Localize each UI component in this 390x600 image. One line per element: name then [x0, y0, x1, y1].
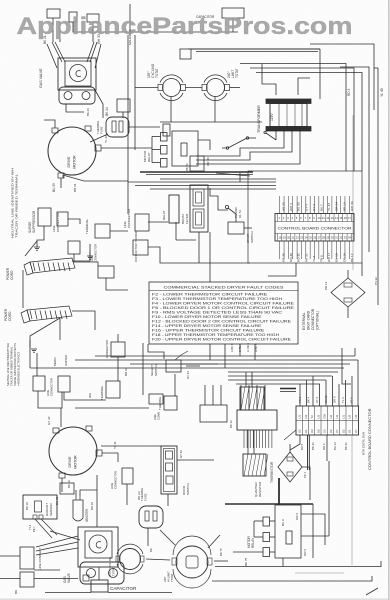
switch blade near transformer — [266, 133, 276, 140]
wire below grid 2 — [290, 435, 300, 450]
wire — [170, 97, 172, 123]
wire — [122, 112, 124, 118]
wire bus lower 2 — [75, 359, 358, 361]
transformer T1 inner lines — [278, 104, 280, 126]
wire — [198, 232, 200, 263]
svg-text:THERMAL: THERMAL — [158, 396, 162, 410]
svg-text:CONTROL BOARD CONNECTOR: CONTROL BOARD CONNECTOR — [367, 408, 372, 470]
svg-text:YL 3: YL 3 — [341, 397, 345, 403]
wire — [186, 365, 200, 367]
wire fan from sensor — [35, 519, 52, 538]
svg-text:RELAY: RELAY — [147, 152, 151, 162]
door switch body — [161, 446, 177, 494]
wire relay to bottom bus — [282, 558, 284, 567]
svg-text:TERMINAL: TERMINAL — [85, 219, 89, 235]
wire — [52, 18, 54, 42]
wire drops below fault box — [209, 344, 211, 360]
svg-text:CAPACITOR: CAPACITOR — [110, 586, 137, 591]
line connector LC2 — [68, 241, 80, 254]
svg-text:TRACER OR RIBBED TERMINAL: TRACER OR RIBBED TERMINAL — [15, 174, 19, 238]
svg-text:BU 9: BU 9 — [281, 519, 285, 526]
wire — [245, 372, 247, 387]
connector box CC1 — [135, 214, 149, 231]
svg-text:OR 36: OR 36 — [206, 157, 210, 166]
connector block — [180, 49, 191, 59]
svg-text:YL 43: YL 43 — [327, 203, 331, 211]
svg-text:OR 6: OR 6 — [303, 549, 307, 556]
svg-text:U2: U2 — [298, 429, 302, 433]
wire top horizontal — [110, 31, 238, 33]
svg-text:BU 33: BU 33 — [297, 202, 301, 211]
svg-text:U3: U3 — [304, 415, 308, 419]
control board connector pin numbers top — [279, 216, 352, 220]
svg-text:DIGIT CARD: DIGIT CARD — [307, 310, 311, 330]
wire drops to relay board — [240, 385, 242, 410]
svg-text:BK 7: BK 7 — [320, 204, 324, 211]
wire bus lower 4 — [30, 367, 344, 369]
svg-text:CONNECTOR: CONNECTOR — [94, 244, 98, 262]
svg-text:BK 7: BK 7 — [32, 526, 36, 532]
svg-text:WH 33: WH 33 — [350, 201, 354, 211]
drive motor M1 terminal top-left — [52, 128, 58, 133]
thermostat TS1 body — [163, 79, 181, 97]
svg-text:BR 19: BR 19 — [342, 202, 346, 211]
capacitor body — [91, 580, 108, 592]
svg-text:SURGE SUPPRESSOR PROTECTS: SURGE SUPPRESSOR PROTECTS — [13, 343, 17, 386]
svg-text:115V: 115V — [270, 113, 274, 121]
wire — [208, 535, 220, 548]
wire bus right outer — [340, 67, 369, 78]
cycling thermostat TS3 body — [120, 549, 141, 570]
svg-text:U3: U3 — [348, 415, 352, 419]
gas valve GV2 bracket — [80, 562, 124, 584]
motor relay upper box — [172, 131, 198, 166]
wire — [127, 35, 129, 214]
wire gray vertical lower — [351, 435, 353, 565]
svg-text:BK 19: BK 19 — [67, 480, 71, 488]
wire — [298, 78, 310, 95]
svg-text:TN 5: TN 5 — [320, 255, 324, 262]
wire U under suppressor — [38, 391, 62, 408]
scan edge streak bottom — [0, 598, 390, 600]
wire — [289, 444, 291, 452]
wire below diamond — [347, 307, 349, 318]
wire — [117, 334, 119, 342]
svg-text:BK: BK — [14, 590, 18, 594]
wire — [253, 521, 255, 537]
drive motor M1 terminal top-right — [85, 126, 91, 131]
relay box RL1 — [169, 195, 179, 223]
thermostat TS2 terminal right — [225, 85, 230, 91]
svg-text:YL 45: YL 45 — [380, 88, 384, 97]
relay upper coil bar — [181, 143, 187, 156]
drive motor M1 body — [48, 127, 96, 175]
wire — [102, 453, 118, 462]
svg-text:GY 4: GY 4 — [304, 204, 308, 211]
thermistor TH1 pads — [344, 283, 352, 287]
wire dark double below grid — [307, 435, 309, 470]
svg-text:TSTAT: TSTAT — [170, 573, 174, 582]
svg-text:AppliancePartsPros.com: AppliancePartsPros.com — [17, 13, 353, 40]
connector box ML3 — [111, 342, 125, 357]
svg-text:RELAY: RELAY — [251, 537, 255, 548]
svg-text:B TN 4: B TN 4 — [238, 343, 242, 352]
wire bus to connector 1 — [128, 181, 276, 183]
svg-text:VALVE: VALVE — [67, 573, 71, 583]
svg-text:MOTOR: MOTOR — [74, 455, 78, 469]
thermostat TS2 terminal left — [202, 85, 207, 91]
svg-text:GN 36: GN 36 — [289, 253, 293, 262]
wire gray vertical — [352, 115, 354, 270]
gas valve GV1 body — [58, 58, 96, 90]
wire drops to UI connector — [299, 384, 301, 406]
thermal fuse TF1 body — [106, 117, 129, 137]
svg-text:BK 75: BK 75 — [219, 548, 223, 556]
wire short — [34, 569, 60, 571]
transformer T1 leads — [275, 131, 277, 140]
gas valve GV1 funnel wires — [52, 42, 62, 62]
svg-text:U2: U2 — [329, 429, 333, 433]
wire — [214, 560, 228, 562]
svg-text:BR 64: BR 64 — [124, 367, 128, 376]
wire bus lower 6 — [228, 375, 332, 377]
svg-text:F16 - UPPER THERMISTOR CIRCUIT: F16 - UPPER THERMISTOR CIRCUIT FAILURE — [152, 328, 265, 332]
relay board pins — [244, 430, 272, 448]
wire gray bottom — [295, 572, 344, 574]
thermal fuse TF1 slot right — [119, 121, 123, 132]
svg-text:F2 - LOWER THERMISTOR CIRCUI: F2 - LOWER THERMISTOR CIRCUIT FAILURE — [152, 292, 268, 296]
line connector box LC5 — [122, 468, 133, 484]
svg-text:WH 4: WH 4 — [289, 203, 293, 211]
wire thick horizontal — [225, 503, 313, 505]
wire — [44, 120, 55, 128]
svg-text:BU 5: BU 5 — [300, 443, 304, 450]
gas valve GV2 hole left — [87, 569, 96, 578]
svg-text:BK 41: BK 41 — [344, 442, 348, 450]
selector switch box — [166, 360, 181, 372]
svg-text:CORD: CORD — [10, 270, 14, 280]
wire — [126, 484, 128, 505]
svg-text:COMMERCIAL STACKED DRYER FAULT: COMMERCIAL STACKED DRYER FAULT CODES — [164, 284, 284, 289]
svg-text:NEUTRAL LINE IDENTIFIED BY WH: NEUTRAL LINE IDENTIFIED BY WH — [6, 343, 10, 386]
svg-text:GY 43: GY 43 — [47, 416, 51, 425]
svg-text:PK 1: PK 1 — [298, 396, 302, 403]
radiant sensor box — [23, 495, 57, 519]
wire — [0, 578, 20, 580]
wire — [129, 126, 160, 128]
wire — [175, 222, 177, 240]
wire — [106, 278, 128, 290]
wire — [232, 18, 234, 32]
drive motor M2 body — [49, 427, 97, 475]
drive motor M2 terminal right — [96, 450, 102, 456]
svg-text:SWITCH: SWITCH — [250, 231, 254, 243]
control board connector box — [275, 214, 354, 242]
wire — [209, 232, 211, 282]
wire diagonal from power cord — [30, 318, 60, 348]
power cord plug P2 — [21, 306, 72, 323]
svg-text:F12 - BLOCKED DOOR 2 OR CONTRO: F12 - BLOCKED DOOR 2 OR CONTROL CIRCUIT … — [152, 319, 292, 323]
svg-text:BK 41: BK 41 — [311, 442, 315, 450]
TS3 terminals — [116, 556, 120, 562]
wire bus lower 7 — [228, 379, 326, 381]
svg-text:TSTAT: TSTAT — [155, 68, 159, 78]
svg-text:U5: U5 — [316, 429, 320, 433]
wire bus lower 8 — [236, 383, 320, 385]
wire corner right mid — [342, 348, 351, 384]
wire — [210, 188, 228, 210]
wire bus to connector 0 — [160, 178, 276, 180]
motor relay contacts — [263, 517, 270, 557]
relay board block — [237, 410, 277, 430]
gas valve GV2 center mark — [96, 542, 101, 548]
svg-text:BK 12: BK 12 — [350, 253, 354, 262]
transformer T1 top plate — [266, 99, 311, 104]
wire — [34, 578, 78, 580]
drive motor M2 terminal top-right — [86, 426, 92, 431]
wire bus lower 5 — [228, 371, 338, 373]
wire — [148, 221, 168, 223]
svg-text:BOOST: BOOST — [181, 213, 185, 224]
wire diagonal from fuse — [90, 134, 108, 142]
thermostat TS1 terminal right — [181, 85, 186, 91]
svg-text:MTR CNTRL RUN: MTR CNTRL RUN — [362, 432, 366, 455]
wire — [152, 136, 161, 138]
svg-text:MOTOR: MOTOR — [73, 155, 77, 169]
svg-text:FUSE: FUSE — [100, 126, 104, 134]
svg-text:BR 64: BR 64 — [73, 183, 77, 192]
wire — [312, 504, 314, 558]
svg-text:A BU 9: A BU 9 — [230, 343, 234, 352]
svg-text:YL 2: YL 2 — [312, 255, 316, 262]
svg-text:U7 3: U7 3 — [315, 397, 319, 403]
motor relay upper contacts — [161, 133, 168, 168]
connector box ML4 — [149, 394, 163, 404]
wire below grid — [326, 435, 328, 461]
thermal fuse TF2 slots — [145, 511, 149, 521]
connector small box left of TF1 — [117, 99, 130, 112]
thermistor TH2 pads — [287, 457, 293, 461]
svg-text:RESISTOR: RESISTOR — [258, 481, 262, 497]
wire — [146, 559, 170, 560]
svg-text:IGNITER: IGNITER — [85, 508, 89, 522]
svg-text:U4: U4 — [354, 415, 358, 419]
svg-text:U1: U1 — [348, 429, 352, 433]
svg-text:OR 9: OR 9 — [332, 396, 336, 403]
svg-text:BK: BK — [149, 548, 153, 552]
svg-text:F9 - RMS VOLTAGE DETECTED LE: F9 - RMS VOLTAGE DETECTED LESS THAN 90 V… — [152, 310, 283, 314]
wire — [110, 230, 128, 232]
svg-text:+40339H335 ELECTRONICS: +40339H335 ELECTRONICS — [17, 352, 21, 386]
wire — [233, 551, 263, 553]
thermal fuse TF1 slot left — [112, 121, 116, 132]
line connector LC3 — [98, 266, 114, 278]
control board connector pin ticks top — [275, 214, 354, 222]
svg-text:LINE: LINE — [153, 414, 157, 420]
wire bus lower 1 — [95, 355, 355, 357]
svg-text:CONTACTOR TORRID: CONTACTOR TORRID — [134, 230, 138, 262]
wire — [248, 137, 257, 139]
svg-text:PK 31: PK 31 — [304, 253, 308, 262]
gas valve GV1 inner frame — [65, 61, 91, 86]
wire — [89, 244, 91, 256]
wire bus right 2 — [250, 68, 354, 171]
wire — [361, 263, 363, 276]
gas valve GV1 center mark — [76, 71, 81, 77]
gas valve GV1 mounting hole right — [82, 92, 90, 100]
wire — [29, 340, 31, 368]
wire — [61, 478, 63, 492]
svg-text:FUSE: FUSE — [144, 493, 148, 501]
wire motor to valve — [96, 490, 98, 527]
control board connector pin ticks bottom — [275, 234, 354, 242]
wire bus right 4 — [310, 44, 374, 110]
wire — [147, 528, 149, 546]
svg-text:TSTAT: TSTAT — [112, 567, 116, 576]
wire — [262, 64, 276, 95]
wire — [319, 49, 321, 99]
svg-text:BK 44: BK 44 — [86, 108, 90, 116]
connector box CC2 — [133, 240, 148, 255]
wire bus lower 3 — [130, 363, 350, 365]
gas valve GV1 bracket — [59, 87, 95, 104]
push-to-start switch SW1 — [225, 205, 252, 234]
wire relay right corner — [328, 461, 330, 536]
wire — [36, 353, 38, 376]
svg-text:SWITCH: SWITCH — [154, 364, 158, 376]
wire — [75, 407, 149, 409]
wire — [59, 318, 61, 340]
svg-text:OR 34: OR 34 — [335, 202, 339, 211]
motor relay box — [275, 505, 301, 558]
wire — [216, 173, 250, 176]
thermostat TS1 flange arcs — [160, 75, 183, 83]
ground — [34, 246, 40, 248]
relay coil bar — [286, 531, 292, 544]
ground mid-left — [31, 348, 37, 350]
wire — [347, 270, 349, 278]
svg-text:DRIVE: DRIVE — [67, 156, 71, 168]
transformer T1 bottom plate — [266, 127, 311, 132]
svg-text:U1: U1 — [304, 429, 308, 433]
drive motor M2 terminal bottom — [59, 473, 65, 478]
svg-text:OR 6: OR 6 — [295, 513, 299, 520]
svg-text:BK 14: BK 14 — [105, 107, 109, 116]
svg-text:OR 6: OR 6 — [322, 443, 326, 450]
wire drops to LB1 — [204, 385, 206, 405]
wire right outer vertical — [377, 68, 379, 305]
wire under capacitor — [45, 592, 91, 594]
radiant sensor terminals — [33, 515, 37, 519]
svg-text:GY 40: GY 40 — [179, 450, 183, 458]
surge suppressor body — [38, 208, 51, 226]
connector box ML2 — [106, 381, 120, 398]
door switch slots — [166, 451, 173, 459]
svg-text:GY 63: GY 63 — [186, 371, 190, 379]
svg-text:TRANSFORMER: TRANSFORMER — [257, 105, 261, 133]
svg-text:CONNECTOR: CONNECTOR — [56, 212, 60, 232]
wire — [95, 90, 103, 118]
connector small — [163, 124, 170, 136]
drive motor M1 terminal right — [95, 145, 101, 151]
svg-text:BR 35: BR 35 — [282, 253, 286, 262]
svg-text:C OR 6: C OR 6 — [246, 343, 250, 352]
connector box LB1 — [200, 405, 227, 422]
svg-text:SENSOR: SENSOR — [49, 502, 53, 516]
wire — [247, 430, 249, 454]
thermostat TS2 body — [207, 79, 225, 97]
svg-text:BK 26: BK 26 — [185, 163, 189, 171]
svg-text:F3 - LOWER THERMISTOR TEMPER: F3 - LOWER THERMISTOR TEMPERATURE TOO HI… — [152, 297, 283, 301]
gas valve GV1 coil circle — [70, 65, 87, 82]
wire — [63, 175, 128, 181]
wire — [354, 348, 356, 356]
wire door switch bottom — [167, 494, 169, 506]
wire — [129, 4, 131, 35]
terminal block TB1 — [95, 224, 110, 238]
thermostat TS2 flange arcs — [204, 75, 227, 83]
svg-text:YL 4: YL 4 — [28, 524, 32, 530]
svg-text:BK 75: BK 75 — [244, 557, 248, 566]
svg-text:Y2: Y2 — [310, 415, 314, 419]
wire thick bus into UI grid area — [280, 388, 296, 390]
svg-text:CONNECTOR: CONNECTOR — [105, 340, 109, 358]
svg-text:BK/WH: BK/WH — [53, 357, 57, 366]
surge suppressor box 2 — [33, 376, 45, 391]
svg-text:FILTER: FILTER — [185, 213, 189, 224]
heater box A hatched — [240, 387, 264, 410]
svg-text:CORD: CORD — [8, 311, 12, 321]
svg-text:CONNECTOR: CONNECTOR — [311, 308, 315, 330]
wire — [60, 408, 62, 427]
svg-text:WH 17: WH 17 — [327, 252, 331, 262]
drive motor M2 terminal top — [53, 428, 59, 433]
connector block — [69, 12, 77, 22]
svg-text:F6 - BLOCKED DOOR 1 OR CONTR: F6 - BLOCKED DOOR 1 OR CONTROL CIRCUIT F… — [152, 306, 295, 310]
switch blade upper — [228, 138, 247, 148]
svg-text:RD 32: RD 32 — [297, 253, 301, 262]
svg-text:RELAY: RELAY — [162, 210, 166, 220]
wire bus right 1 — [240, 64, 346, 172]
svg-text:ST 6: ST 6 — [350, 397, 354, 403]
svg-text:BK 19: BK 19 — [25, 502, 29, 510]
wire horizontal — [160, 121, 262, 123]
igniter body — [73, 500, 83, 521]
wire bus to connector 3 — [150, 188, 276, 190]
ground — [87, 255, 93, 257]
wire — [186, 87, 203, 89]
svg-text:CY 4: CY 4 — [312, 204, 316, 211]
wire — [357, 360, 359, 406]
wire — [0, 555, 20, 557]
svg-text:BU 18: BU 18 — [335, 253, 339, 262]
power cord plug P1 — [24, 258, 75, 275]
wire — [301, 514, 325, 545]
gas valve GV2 coil circle — [89, 535, 107, 553]
thermal fuse TF2 body — [139, 506, 163, 528]
wire — [68, 219, 80, 224]
svg-text:TSTAT: TSTAT — [235, 68, 239, 78]
wire bottom bus 2 — [212, 576, 372, 581]
wire — [72, 252, 90, 261]
wire — [135, 87, 158, 89]
gas valve GV2 funnel wires — [36, 536, 78, 547]
wire — [73, 22, 110, 32]
wire — [160, 530, 175, 545]
wire right second vertical — [368, 78, 370, 252]
svg-text:EXTERNAL: EXTERNAL — [302, 312, 306, 330]
wire — [98, 567, 100, 580]
